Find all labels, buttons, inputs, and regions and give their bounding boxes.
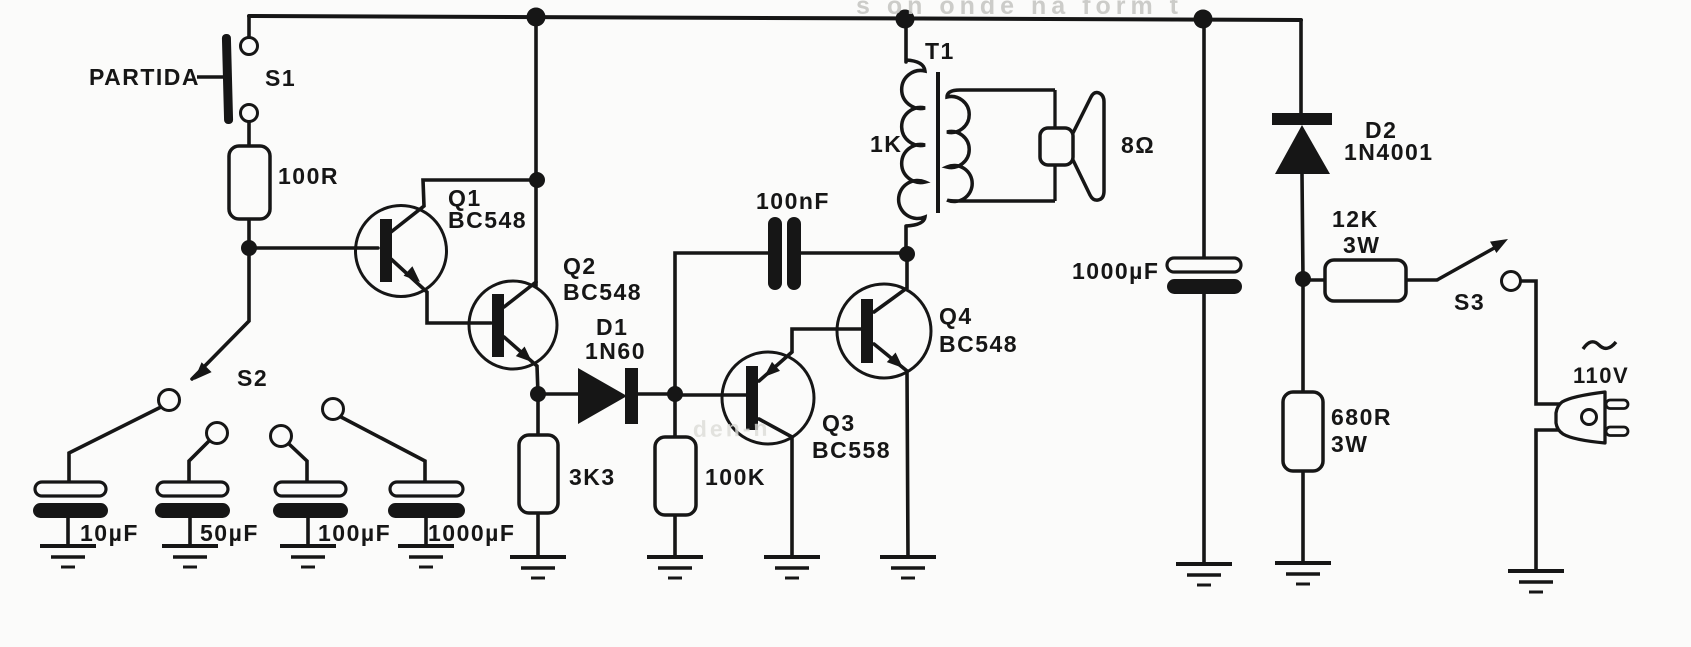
svg-text:BC548: BC548 [939, 331, 1018, 357]
svg-text:100nF: 100nF [756, 188, 830, 214]
ground 100K [647, 557, 703, 578]
svg-text:D1: D1 [596, 314, 628, 340]
wire node E down to 680R [1301, 279, 1305, 392]
resistor 100K [655, 437, 696, 515]
diode D1 1N60 [578, 368, 638, 424]
node A junction 100R/Q1/S2 [241, 240, 257, 256]
wire 1000uF to ground [1202, 293, 1206, 564]
node D junction 100nF/T1/Q4 [899, 246, 915, 262]
wire Q1 emitter to Q2 base [391, 259, 491, 323]
label AC tilde [1583, 342, 1616, 349]
capacitor C4 1000uF [388, 482, 465, 518]
wire PARTIDA dash [197, 75, 223, 79]
wire node C to Q3 base [675, 393, 746, 397]
wire node B to D1 anode [538, 392, 579, 396]
wire S1 bottom to 100R [247, 121, 251, 146]
svg-text:s on onde na form t: s on onde na form t [856, 0, 1183, 20]
switch S3 blade [1437, 247, 1496, 280]
transformer T1 core [936, 72, 940, 213]
svg-text:BC558: BC558 [812, 437, 891, 463]
svg-text:den-n: den-n [693, 415, 771, 442]
ground C3 [280, 546, 336, 567]
capacitor C2 50uF [155, 482, 230, 518]
ground 680R [1275, 563, 1331, 584]
switch S2 pole contact [159, 390, 180, 411]
svg-text:50µF: 50µF [200, 520, 259, 546]
ground C2 [162, 546, 218, 567]
svg-text:110V: 110V [1573, 363, 1629, 388]
node B junction Q2emitter/D1/3K3 [530, 386, 546, 402]
svg-text:PARTIDA: PARTIDA [89, 64, 200, 90]
svg-text:1000µF: 1000µF [1072, 258, 1159, 284]
wire node D up to T1 primary [904, 226, 908, 254]
wire 100K to ground [673, 515, 677, 557]
wire Q4 collector to node D [874, 254, 907, 312]
ground 1000uF [1176, 564, 1232, 585]
ground 3K3 [510, 557, 566, 578]
wire 100nF right to node D [800, 251, 907, 255]
wire top supply rail [249, 16, 1301, 20]
wire main vertical rail to Q2 collector [534, 16, 538, 286]
switch S2 contact 2 [207, 423, 228, 444]
svg-text:BC548: BC548 [563, 279, 642, 305]
svg-text:Q4: Q4 [939, 303, 973, 329]
svg-text:100µF: 100µF [318, 520, 391, 546]
wire 3K3 to ground [536, 513, 540, 557]
wire plug bottom to ground [1536, 430, 1560, 571]
wire rail to 1000uF [1202, 19, 1206, 259]
switch S1 [222, 34, 258, 124]
junction node rail-T1 [896, 10, 915, 29]
svg-text:1N4001: 1N4001 [1344, 139, 1434, 165]
svg-text:1K: 1K [870, 131, 902, 157]
wire C3 to ground [306, 517, 310, 546]
resistor 100R [229, 146, 270, 219]
resistor 680R [1283, 392, 1323, 471]
wire node A down to S2 wiper [192, 248, 249, 379]
wire S1 top drop [247, 16, 251, 38]
capacitor C3 100uF [273, 482, 348, 518]
wire rail to T1 primary top [904, 19, 908, 62]
svg-text:S2: S2 [237, 365, 268, 391]
switch S3 contact [1502, 272, 1521, 291]
wire D2 anode to node E [1302, 174, 1303, 279]
wire 12K to S3 blade [1405, 278, 1437, 282]
wire D1 cathode to node C [637, 392, 675, 396]
wire Q3 emitter to Q4 base [759, 329, 861, 381]
junction node rail-1000uF [1194, 10, 1213, 29]
transistor Q4 [837, 284, 931, 378]
transistor Q3 BC558 pnp [722, 352, 814, 444]
capacitor 1000uF filter [1167, 258, 1242, 294]
wire S2 pole to C 10uF [69, 407, 161, 483]
resistor 3K3 [519, 435, 558, 513]
node E junction D2/12K/680R [1295, 271, 1311, 287]
wire Q2 collector diag [504, 282, 536, 307]
svg-text:3W: 3W [1331, 431, 1369, 457]
wire S3 contact to plug top [1520, 281, 1560, 404]
capacitor 100nF [768, 217, 801, 290]
wire node E to 12K [1303, 278, 1325, 282]
svg-text:100R: 100R [278, 163, 339, 189]
ground C1 [40, 546, 96, 567]
wire node C down to 100K [673, 394, 677, 437]
diode D2 1N4001 [1272, 113, 1332, 174]
ground Q3 [764, 557, 820, 578]
svg-text:100K: 100K [705, 464, 766, 490]
switch S2 contact 4 [323, 399, 344, 420]
svg-text:T1: T1 [925, 38, 955, 64]
wire Q1 collector up to rail node [391, 180, 537, 232]
speaker SPKR [1040, 93, 1104, 201]
switch S3 arrowhead [1490, 239, 1508, 253]
wire Q2 emitter to node B [504, 337, 538, 394]
svg-text:S1: S1 [265, 65, 296, 91]
svg-text:680R: 680R [1331, 404, 1392, 430]
transformer T1 secondary winding [947, 90, 1055, 201]
svg-text:3W: 3W [1343, 232, 1381, 258]
svg-text:12K: 12K [1332, 206, 1379, 232]
wire C2 to ground [188, 517, 192, 546]
wire node C up to 100nF left [675, 253, 769, 394]
node C junction D1/100K/Q3/100nF [667, 386, 683, 402]
junction Q1 collector rail [529, 172, 545, 188]
svg-text:8Ω: 8Ω [1121, 132, 1155, 158]
wire 100uF contact to cap [289, 444, 307, 483]
wire 1000uF contact to cap [341, 417, 425, 483]
wire 50uF contact to cap [189, 441, 209, 483]
wire Q3 collector to ground [759, 419, 792, 557]
ground C4 [398, 546, 454, 567]
svg-text:Q2: Q2 [563, 253, 597, 279]
wire node B down to 3K3 [536, 394, 540, 435]
svg-text:3K3: 3K3 [569, 464, 616, 490]
wire Q4 emitter to ground [874, 344, 908, 557]
resistor 12K [1325, 260, 1406, 301]
capacitor C1 10uF [33, 482, 108, 518]
wire C1 to ground [66, 517, 70, 546]
svg-text:10µF: 10µF [80, 520, 139, 546]
switch S2 contact 3 [271, 426, 292, 447]
svg-text:Q3: Q3 [822, 410, 856, 436]
wire C4 to ground [424, 517, 428, 546]
svg-text:S3: S3 [1454, 289, 1485, 315]
switch S2 wiper arrowhead [194, 362, 212, 380]
ground plug [1508, 571, 1564, 592]
plug P1 body [1556, 392, 1605, 443]
transistor Q1 [356, 206, 447, 297]
plug prong upper [1606, 400, 1628, 409]
plug prong lower [1606, 427, 1628, 436]
wire 680R to ground [1301, 471, 1305, 563]
svg-text:1000µF: 1000µF [428, 520, 515, 546]
wire rail corner down to D2 cathode [1299, 20, 1303, 113]
wire secondary to speaker [1053, 90, 1056, 201]
svg-text:1N60: 1N60 [585, 338, 646, 364]
ground Q4 [880, 557, 936, 578]
junction node rail-Q2 [527, 8, 546, 27]
wire node A to Q1 base [249, 246, 378, 250]
wire 100R to node A [247, 219, 251, 249]
transistor Q2 [469, 281, 557, 369]
svg-text:BC548: BC548 [448, 207, 527, 233]
transformer T1 primary winding [899, 60, 925, 226]
